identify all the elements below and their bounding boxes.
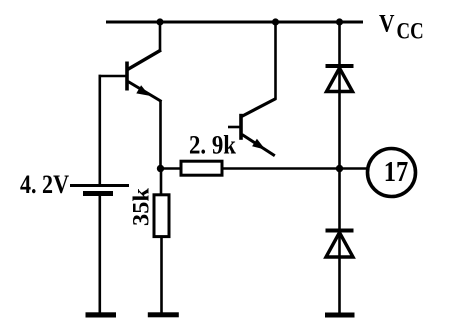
label 2.9k	[189, 131, 236, 160]
wire Q2 base stub	[228, 126, 241, 129]
wire node A to R1	[161, 167, 182, 170]
junction rail-Q1 collector	[156, 18, 163, 25]
label 4.2V	[20, 170, 69, 199]
svg-text:CC: CC	[397, 19, 424, 44]
ground battery branch	[86, 312, 117, 317]
wire battery to ground	[99, 194, 102, 314]
node A junction dot	[157, 165, 164, 172]
label VCC	[379, 11, 424, 44]
resistor R1 2.9k	[181, 161, 222, 175]
terminal 17 circle	[368, 149, 416, 197]
wire Q1 base to battery	[99, 75, 102, 186]
resistor R2 35k	[154, 195, 169, 237]
diode D1	[326, 66, 354, 92]
battery 4.2V	[70, 186, 129, 194]
wire R2 to ground	[160, 237, 163, 314]
transistor Q2	[241, 22, 276, 156]
label 35k	[129, 188, 154, 226]
transistor Q1	[127, 22, 162, 102]
wire diode branch vertical	[338, 22, 341, 314]
wire node A to R2	[160, 169, 163, 196]
diode D2	[326, 231, 354, 258]
svg-text:35k: 35k	[129, 188, 154, 226]
svg-text:4. 2V: 4. 2V	[20, 170, 69, 199]
junction rail-Q2 collector	[272, 18, 279, 25]
svg-text:V: V	[379, 11, 395, 38]
wire Q1 emitter to node A	[159, 101, 162, 169]
svg-text:17: 17	[384, 156, 409, 188]
junction output node dot	[336, 165, 343, 172]
wire Q1 base lead	[99, 75, 128, 78]
svg-text:2. 9k: 2. 9k	[189, 131, 236, 160]
junction rail-diode branch	[336, 18, 343, 25]
wire R1 to output node	[222, 167, 369, 170]
ground diode branch	[325, 313, 355, 318]
wire Vcc rail	[106, 21, 363, 24]
ground R2 branch	[148, 312, 179, 317]
